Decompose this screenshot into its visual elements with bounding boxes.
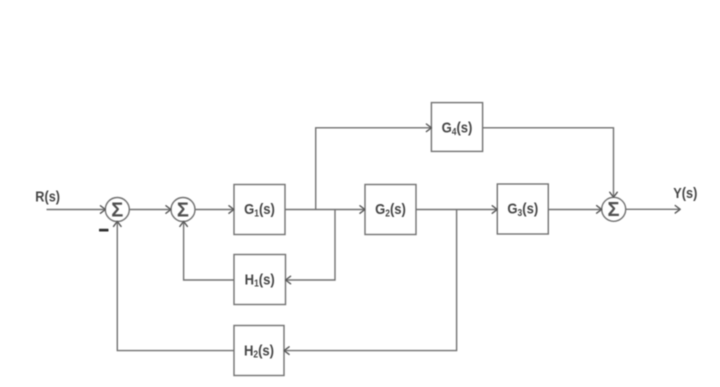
svg-text:R(s): R(s) — [35, 189, 60, 205]
svg-text:G4(s): G4(s) — [442, 120, 473, 137]
svg-text:Y(s): Y(s) — [673, 185, 697, 201]
svg-text:H1(s): H1(s) — [245, 271, 275, 288]
svg-text:Σ: Σ — [607, 199, 619, 221]
svg-text:Σ: Σ — [111, 199, 123, 221]
svg-text:H2(s): H2(s) — [244, 342, 274, 359]
svg-text:G3(s): G3(s) — [507, 201, 538, 218]
svg-text:G2(s): G2(s) — [375, 201, 406, 218]
svg-text:Σ: Σ — [177, 199, 189, 221]
svg-text:G1(s): G1(s) — [244, 201, 275, 218]
